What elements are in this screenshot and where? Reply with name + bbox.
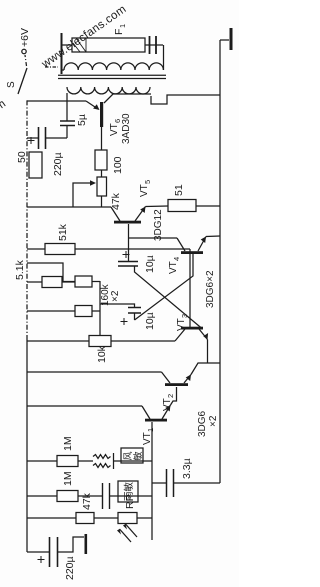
svg-text:1M: 1M [62,471,74,486]
wire cross coupling diag 2 [135,254,194,320]
resistor 50 [16,151,42,178]
svg-text:敏: 敏 [132,451,143,460]
svg-text:47k: 47k [110,192,122,210]
wire VT1 base line [151,422,153,540]
svg-text:×2: ×2 [110,290,121,302]
svg-text:51k: 51k [57,223,69,241]
wire bottom rail [219,40,221,483]
svg-text:雨敏: 雨敏 [123,481,135,501]
transistor VT6 power PNP [86,94,151,144]
svg-text:51: 51 [173,184,185,196]
transistor VT3 [111,249,208,363]
transformer primary winding [67,87,150,94]
svg-text:F: F [113,29,125,35]
capacitor 220u output side [27,127,67,176]
resistor 47k input chain [27,492,118,523]
svg-text:×2: ×2 [208,415,219,427]
capacitor 10u coupling to VT4 base [100,304,156,330]
svg-text:5: 5 [143,180,152,184]
resistor 51k [27,223,190,254]
transistor VT1 [27,387,177,445]
transistor VT2 [27,363,220,411]
svg-text:50: 50 [16,151,28,163]
svg-text:10k: 10k [96,345,108,363]
svg-text:3DG6: 3DG6 [197,410,208,437]
wire secondary top terminal [45,33,64,74]
ground terminal bar bottom right [220,28,233,50]
earphone F1 [62,24,146,52]
resistor 10k collector load VT3 [27,336,111,364]
transistor VT5 [27,180,168,241]
capacitor 10u VT5 base [118,224,156,273]
svg-text:VT: VT [162,398,173,411]
resistor 51 emitter VT5 [168,184,220,211]
svg-text:VT: VT [176,318,187,331]
transistor VT4 [128,236,220,274]
svg-text:100: 100 [112,156,124,174]
svg-text:VT: VT [142,432,153,445]
photoresistor RP [117,494,152,542]
svg-text:S: S [6,81,17,88]
svg-text:47k: 47k [81,492,93,510]
svg-text:VT: VT [168,261,179,274]
resistor 1M rain branch [27,471,102,501]
rain sensor electrodes [103,481,153,509]
svg-text:+6V: +6V [19,28,31,47]
transformer secondary winding [64,63,163,70]
transformer core [58,78,166,80]
resistor 160k A [27,263,100,287]
capacitor 220u battery-side [27,534,87,580]
resistor 1M wind branch [27,436,93,466]
capacitor 5u [60,93,88,138]
svg-text:4: 4 [172,257,181,261]
svg-text:3DG12: 3DG12 [153,209,164,241]
svg-text:2: 2 [166,394,175,398]
svg-text:220µ: 220µ [64,556,76,580]
svg-text:1M: 1M [62,436,74,451]
wind sensor element [93,448,152,469]
wire cross coupling diag 1 [135,266,203,329]
svg-text:5.1k: 5.1k [14,259,26,280]
wire collector node to 160k pair [99,281,101,336]
wire top rail solid [26,340,28,552]
resistor 160k B [27,306,100,317]
switch S [6,49,27,94]
svg-text:5µ: 5µ [76,114,88,126]
svg-text:VT: VT [139,184,150,197]
svg-text:3DG6×2: 3DG6×2 [205,270,216,308]
svg-text:220µ: 220µ [52,152,64,176]
wire +6V drop to VT6 emitter [27,100,86,102]
svg-text:www.elecfans.com: www.elecfans.com [39,3,129,71]
wire primary bottom to rail [151,95,220,104]
svg-text:3AD30: 3AD30 [121,113,132,144]
svg-text:风: 风 [123,451,133,460]
wire top rail dash-dot [26,100,28,340]
capacitor 3.3u [152,458,220,497]
earphone plug [145,36,164,70]
svg-text:1: 1 [146,428,155,432]
resistor 100 base VT6 [95,127,124,174]
svg-text:10µ: 10µ [144,312,156,330]
svg-text:1: 1 [118,24,127,28]
resistor 5.1k [14,259,75,287]
svg-text:com: com [0,98,8,121]
potentiometer 47k wiper [73,170,122,210]
svg-text:VT: VT [109,123,120,136]
svg-text:3.3µ: 3.3µ [181,458,193,479]
svg-text:10µ: 10µ [144,255,156,273]
